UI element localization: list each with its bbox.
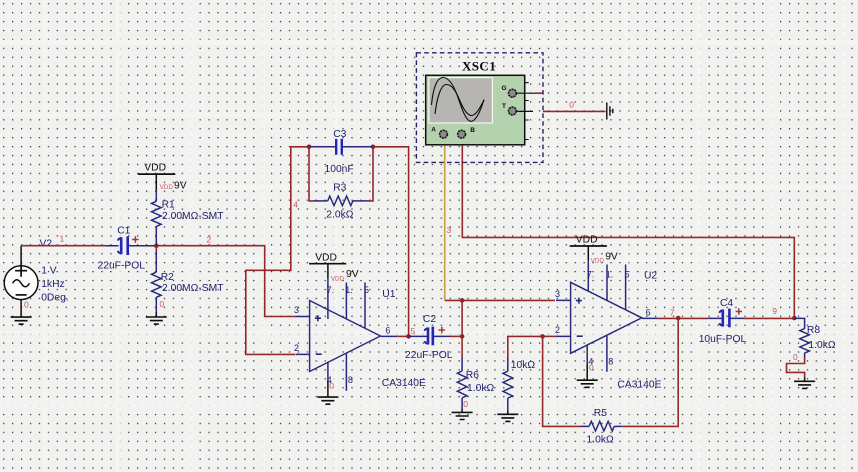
resistor R3 2.0kOhm: [309, 147, 373, 221]
svg-text:0Deg.: 0Deg.: [41, 293, 68, 304]
svg-text:6: 6: [646, 308, 651, 318]
svg-text:1.: 1.: [606, 270, 614, 280]
rotated ground at scope trigger: [607, 103, 613, 120]
svg-text:8: 8: [348, 375, 353, 385]
oscilloscope body: [426, 75, 529, 145]
svg-text:100nF: 100nF: [325, 164, 354, 175]
wire C3 network to U1 output node 5: [373, 147, 409, 336]
resistor R1 2.00MOhm-SMT: [152, 190, 225, 246]
svg-text:R2: R2: [161, 272, 174, 283]
wire U2 output node 7: [658, 308, 678, 319]
wire net 3 to U2 + input: [445, 299, 555, 301]
svg-text:2.00MΩ-SMT: 2.00MΩ-SMT: [162, 211, 224, 222]
ground under 10k: [497, 410, 518, 421]
svg-text:9: 9: [772, 306, 777, 316]
node 2 junction C1/R1/R2: [154, 243, 159, 248]
wire net 1 V2 to C1: [21, 234, 106, 246]
svg-text:VDD: VDD: [144, 163, 166, 174]
wire net 3 vertical to A-tap: [461, 300, 463, 336]
svg-text:T: T: [502, 103, 506, 110]
svg-text:0: 0: [329, 381, 334, 391]
svg-text:B: B: [470, 127, 475, 134]
scope channel A wire (yellow): [445, 139, 452, 300]
svg-text:7.: 7.: [327, 285, 335, 295]
svg-text:0: 0: [463, 399, 468, 409]
svg-text:9V: 9V: [605, 252, 618, 263]
svg-text:1 V: 1 V: [41, 266, 57, 277]
node C3 left junction: [307, 145, 312, 150]
wire U1 output node 5: [397, 326, 416, 336]
svg-text:VDD: VDD: [331, 276, 345, 283]
svg-text:2: 2: [294, 343, 299, 353]
AC source V2: [4, 239, 68, 318]
svg-text:VDD: VDD: [591, 258, 605, 265]
U2 pin 1 stub: [606, 265, 614, 301]
scope terminal G: [502, 85, 543, 98]
svg-text:1.0kΩ: 1.0kΩ: [808, 340, 835, 351]
wire net 0 T to ground: [543, 100, 606, 112]
wire node 7 to C4: [678, 317, 707, 319]
svg-text:U1: U1: [382, 289, 395, 300]
oscilloscope screen with waveforms: [429, 78, 493, 124]
svg-text:C3: C3: [333, 129, 346, 140]
wire R8 to ground jog: [787, 352, 805, 378]
resistor R2 2.00MOhm-SMT: [152, 246, 225, 312]
svg-text:C1: C1: [117, 226, 130, 237]
capacitor C2 22uF-POL: [405, 314, 453, 361]
svg-text:10uF-POL: 10uF-POL: [699, 334, 747, 345]
capacitor C4 10uF-POL: [699, 298, 747, 345]
svg-text:1.0kΩ: 1.0kΩ: [587, 435, 614, 446]
svg-text:2.0kΩ: 2.0kΩ: [326, 210, 353, 221]
node C3 right junction: [371, 145, 376, 150]
op-amp U1 CA3140E: [294, 289, 426, 389]
svg-text:R8: R8: [807, 325, 820, 336]
svg-text:1kHz: 1kHz: [41, 279, 64, 290]
U1 pin 5 stub: [364, 283, 369, 329]
svg-text:CA3140E: CA3140E: [382, 378, 426, 389]
wire net 4 U1 feedback to C3/R3: [246, 147, 309, 355]
svg-text:22uF-POL: 22uF-POL: [98, 261, 146, 272]
svg-text:VDD: VDD: [576, 235, 598, 246]
wire R5 to node 7: [623, 318, 678, 426]
svg-text:A: A: [431, 127, 436, 134]
scope terminal A: [431, 127, 448, 139]
svg-text:VDD: VDD: [160, 184, 174, 191]
U2 pin 7 / VDD rail: [570, 235, 618, 292]
svg-text:XSC1: XSC1: [462, 59, 496, 74]
resistor R8 1.0kOhm: [794, 318, 836, 357]
U1 pin 1 stub: [345, 283, 353, 320]
VDD power symbol (bias rail): [138, 163, 187, 192]
svg-text:22uF-POL: 22uF-POL: [405, 350, 453, 361]
ground under U2: [577, 363, 598, 388]
svg-text:CA3140E: CA3140E: [617, 380, 661, 391]
U2 pin 5 stub: [625, 265, 630, 310]
node 3 junction at C2/R6: [460, 334, 465, 339]
svg-text:R1: R1: [162, 200, 175, 211]
resistor 10kOhm: [503, 358, 535, 411]
svg-text:9V: 9V: [346, 269, 359, 280]
svg-text:7: 7: [670, 308, 675, 318]
svg-text:5: 5: [364, 285, 369, 295]
U2 pin 4 stub: [587, 345, 593, 366]
svg-text:1: 1: [60, 234, 65, 244]
ground under R8: [794, 378, 815, 389]
svg-text:3: 3: [294, 305, 299, 315]
resistor R5 1.0kOhm: [581, 408, 623, 446]
svg-text:3: 3: [555, 289, 560, 299]
wire feedback down to R5: [543, 336, 581, 426]
svg-text:0: 0: [793, 352, 798, 362]
wire 10k resistor to U2 - input: [508, 336, 543, 357]
ground under R2: [146, 299, 167, 324]
op-amp U2 CA3140E: [555, 271, 662, 391]
U1 pin 7 / VDD rail: [309, 253, 359, 320]
scope channel B wire: [462, 139, 794, 318]
svg-text:7.: 7.: [587, 270, 595, 280]
svg-text:R6: R6: [466, 370, 479, 381]
capacitor C1 22uF-POL: [98, 226, 157, 272]
capacitor C3 100nF: [309, 129, 373, 175]
svg-text:6: 6: [385, 326, 390, 336]
ground under V2: [11, 300, 32, 325]
svg-text:C4: C4: [720, 298, 733, 309]
svg-text:C2: C2: [423, 314, 436, 325]
svg-text:3: 3: [447, 225, 452, 235]
svg-text:0: 0: [589, 363, 594, 373]
node 9 junction: [792, 316, 797, 321]
U2 pin 8 stub: [607, 336, 613, 372]
svg-text:5: 5: [625, 270, 630, 280]
svg-text:R5: R5: [594, 408, 607, 419]
node U2 inverting junction: [540, 334, 545, 339]
U1 pin 8 stub: [346, 353, 353, 391]
svg-text:9V: 9V: [174, 181, 187, 192]
svg-text:10kΩ: 10kΩ: [511, 360, 536, 371]
svg-text:G: G: [502, 85, 507, 92]
svg-text:1.0kΩ: 1.0kΩ: [467, 383, 494, 394]
svg-text:8: 8: [608, 357, 613, 367]
svg-text:R3: R3: [333, 183, 346, 194]
svg-text:5: 5: [411, 326, 416, 336]
wire junction to U2 - input: [543, 335, 556, 337]
svg-text:1.: 1.: [345, 285, 353, 295]
svg-text:4: 4: [293, 200, 298, 210]
wire net 2 to U1 + input: [156, 235, 296, 317]
ground under R6: [452, 399, 473, 420]
U1 pin 4 stub: [327, 363, 332, 386]
svg-text:2: 2: [555, 325, 560, 335]
svg-text:2: 2: [207, 235, 212, 245]
svg-text:0: 0: [160, 299, 165, 309]
svg-text:V2: V2: [40, 239, 53, 250]
svg-text:0: 0: [24, 300, 29, 310]
scope terminal B: [457, 127, 475, 139]
scope terminal T: [502, 103, 533, 116]
oscilloscope XSC1 dashed selection box: [416, 53, 543, 163]
wire C2 to node 3 junction: [450, 335, 462, 337]
node 3 junction at A-tap: [460, 298, 465, 303]
wire C4 to node 9: [744, 306, 794, 318]
svg-text:U2: U2: [644, 271, 657, 282]
svg-text:2.00MΩ-SMT: 2.00MΩ-SMT: [162, 283, 224, 294]
node 7 junction: [676, 316, 681, 321]
svg-text:VDD: VDD: [315, 253, 337, 264]
svg-text:0: 0: [569, 100, 574, 110]
node 5 junction: [406, 334, 411, 339]
resistor R6 1.0kOhm: [457, 336, 494, 408]
ground under U1: [317, 381, 338, 405]
